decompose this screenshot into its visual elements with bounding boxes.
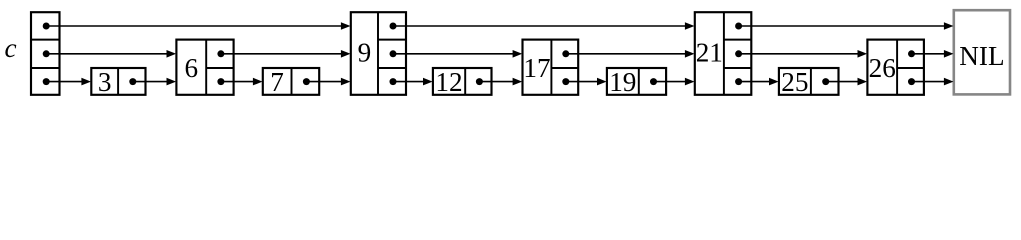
node NIL <box>954 10 1010 94</box>
pointer dot node 9 level 1 <box>390 78 397 85</box>
svg-text:7: 7 <box>270 67 284 97</box>
node 19 <box>607 67 666 97</box>
pointer dot node 21 level 3 <box>735 23 742 30</box>
node 7 <box>263 67 319 97</box>
pointer dot node 21 level 2 <box>735 50 742 57</box>
pointer dot node 6 level 2 <box>217 50 224 57</box>
svg-text:25: 25 <box>781 67 808 97</box>
wire level-2 node 9 to node 17 <box>393 50 522 58</box>
pointer dot node 7 level 1 <box>303 78 310 85</box>
wire level-3 node 21 to NIL <box>739 22 954 30</box>
wire level-1 header to node 3 <box>46 78 91 86</box>
node 21 <box>695 12 752 95</box>
svg-text:12: 12 <box>435 67 462 97</box>
svg-text:NIL: NIL <box>959 41 1004 71</box>
wire level-1 node 3 to node 6 <box>133 78 176 86</box>
wire level-2 header to node 6 <box>46 50 176 58</box>
pointer dot node 25 level 1 <box>822 78 829 85</box>
wire level-1 node 21 to node 25 <box>739 78 779 86</box>
svg-text:19: 19 <box>609 67 636 97</box>
node 26 <box>867 40 924 95</box>
wire level-2 node 21 to node 26 <box>739 50 868 58</box>
pointer dot node 9 level 3 <box>390 23 397 30</box>
wire level-1 node 26 to NIL <box>912 78 954 86</box>
svg-text:6: 6 <box>185 53 199 83</box>
pointer dot node 26 level 1 <box>908 78 915 85</box>
wire level-2 node 17 to node 21 <box>566 50 695 58</box>
svg-text:3: 3 <box>98 67 112 97</box>
pointer dot node 3 level 1 <box>129 78 136 85</box>
svg-text:21: 21 <box>696 38 723 68</box>
node 17 <box>523 40 579 95</box>
pointer dot node 26 level 2 <box>908 50 915 57</box>
wire level-3 node 9 to node 21 <box>393 22 695 30</box>
svg-text:26: 26 <box>869 53 896 83</box>
pointer dot node 6 level 1 <box>217 78 224 85</box>
wire level-1 node 7 to node 9 <box>306 78 350 86</box>
svg-text:9: 9 <box>358 38 372 68</box>
pointer dot node 19 level 1 <box>650 78 657 85</box>
pointer dot node 17 level 1 <box>562 78 569 85</box>
wire level-1 node 9 to node 12 <box>393 78 433 86</box>
node 12 <box>433 67 492 97</box>
wire level-1 node 17 to node 19 <box>566 78 607 86</box>
pointer dot node 9 level 2 <box>390 50 397 57</box>
node 9 <box>351 12 406 95</box>
wire level-1 node 19 to node 21 <box>654 78 695 86</box>
pointer dot header level 3 <box>43 23 50 30</box>
svg-text:17: 17 <box>523 53 550 83</box>
pointer dot node 17 level 2 <box>562 50 569 57</box>
pointer dot header level 1 <box>43 78 50 85</box>
wire level-2 node 6 to node 9 <box>221 50 351 58</box>
wire level-2 node 26 to NIL <box>912 50 954 58</box>
node 25 <box>779 67 839 97</box>
node 3 <box>91 67 145 97</box>
pointer dot node 12 level 1 <box>476 78 483 85</box>
wire level-1 node 25 to node 26 <box>826 78 867 86</box>
wire level-1 node 6 to node 7 <box>221 78 263 86</box>
pointer dot header level 2 <box>43 50 50 57</box>
wire level-1 node 12 to node 17 <box>479 78 522 86</box>
svg-text:c: c <box>4 33 16 63</box>
node 6 <box>176 40 233 95</box>
header node (list head) <box>31 12 60 95</box>
pointer dot node 21 level 1 <box>735 78 742 85</box>
wire level-3 header to node 9 <box>46 22 350 30</box>
